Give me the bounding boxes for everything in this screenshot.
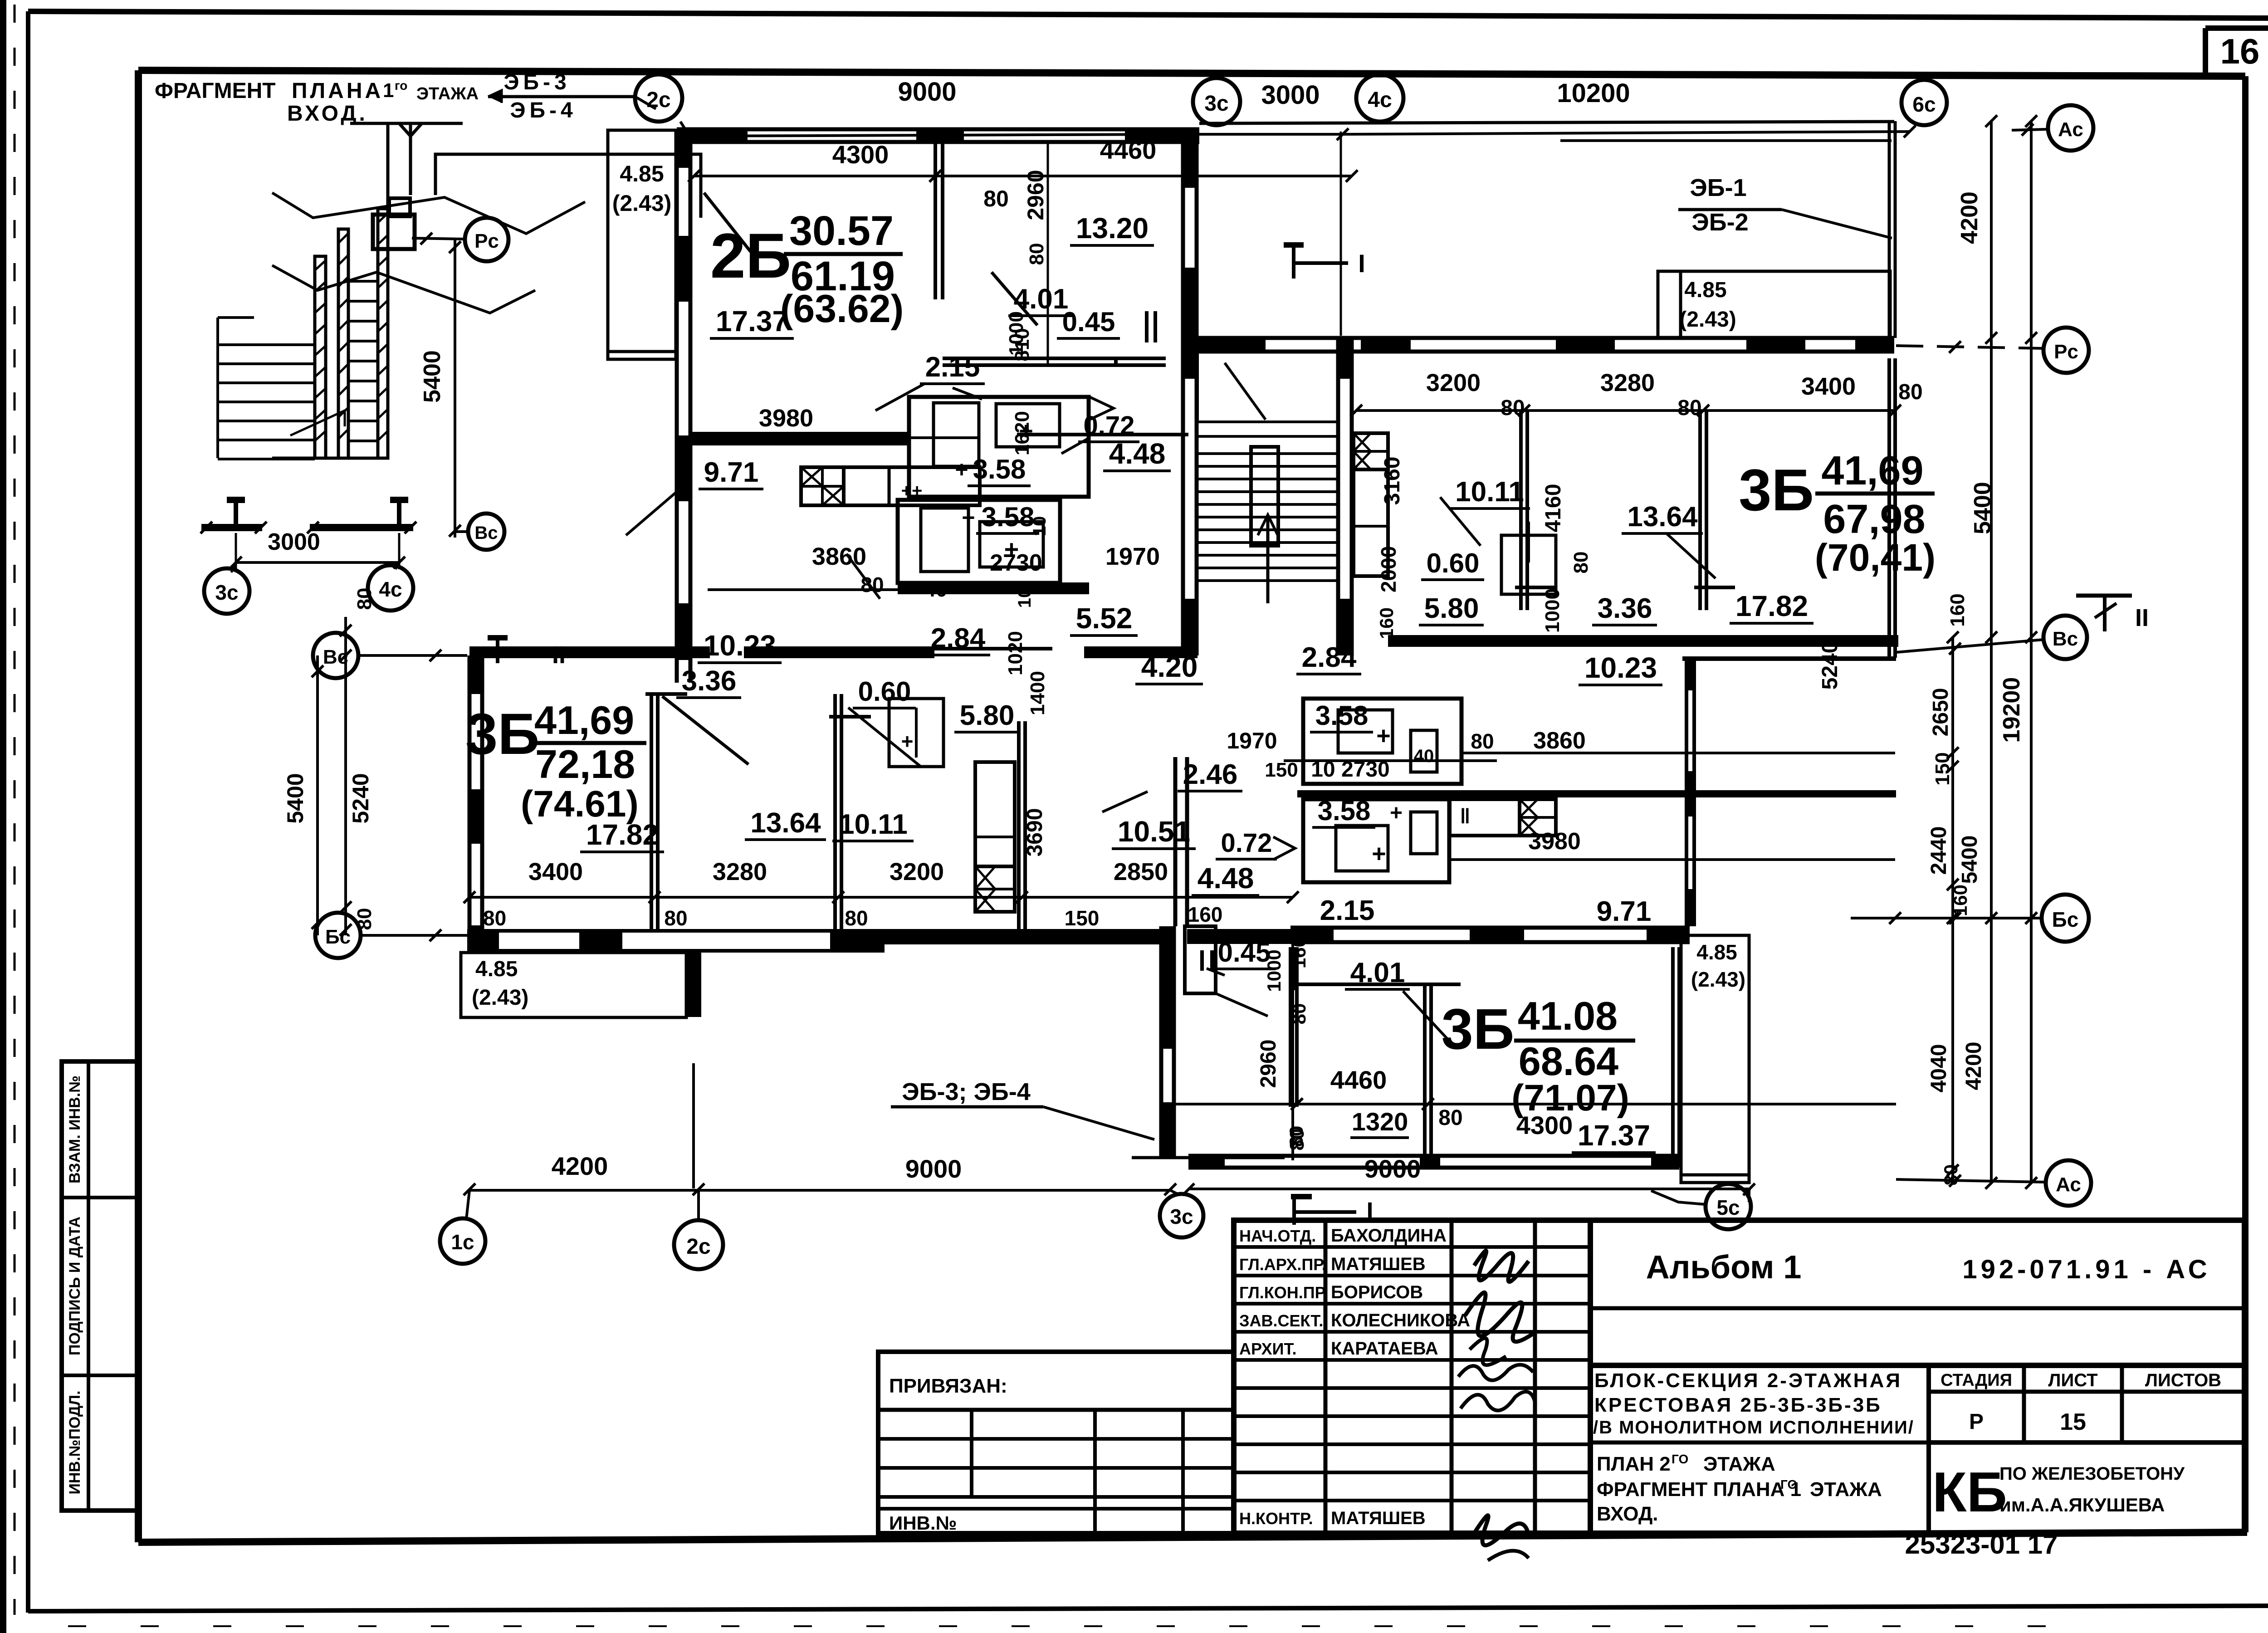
- svg-text:0.45: 0.45: [1062, 307, 1115, 337]
- svg-text:ЭБ-3; ЭБ-4: ЭБ-3; ЭБ-4: [902, 1078, 1030, 1105]
- svg-text:ЭТАЖА: ЭТАЖА: [1703, 1453, 1775, 1475]
- svg-text:ВЗАМ. ИНВ.№: ВЗАМ. ИНВ.№: [66, 1076, 83, 1183]
- svg-text:5400: 5400: [1958, 836, 1982, 884]
- svg-text:72,18: 72,18: [535, 742, 635, 787]
- svg-text:ГО: ГО: [1672, 1452, 1688, 1466]
- svg-text:го: го: [395, 78, 407, 93]
- upper-storey outline east of 3c: [1199, 122, 1894, 123]
- svg-text:МАТЯШЕВ: МАТЯШЕВ: [1331, 1508, 1426, 1528]
- wall under room 13.20: [943, 357, 1166, 360]
- balcony SW: [461, 953, 686, 1017]
- svg-text:10.23: 10.23: [704, 629, 776, 662]
- svg-text:3280: 3280: [1600, 369, 1655, 396]
- svg-text:(2.43): (2.43): [1691, 968, 1745, 991]
- svg-text:3.36: 3.36: [682, 665, 737, 697]
- svg-text:3Б: 3Б: [1442, 997, 1515, 1061]
- fragment dim 5400 vertical: [454, 240, 456, 538]
- svg-text:2960: 2960: [1256, 1040, 1281, 1088]
- svg-text:40: 40: [1414, 746, 1434, 766]
- svg-text:ЭБ-3: ЭБ-3: [503, 70, 570, 94]
- east wing room divider 2: [1698, 411, 1702, 610]
- fragment break zigzag top: [272, 193, 585, 234]
- axis circle 6c top: [1901, 80, 1947, 125]
- svg-text:2.46: 2.46: [1183, 759, 1238, 790]
- svg-text:3160: 3160: [1380, 457, 1404, 505]
- door swing east room1: [1440, 497, 1481, 546]
- svg-text:3400: 3400: [528, 858, 583, 885]
- svg-text:3.58: 3.58: [973, 454, 1026, 484]
- fragment wall top-left: [386, 123, 390, 218]
- east wall of east wing: [1887, 358, 1891, 658]
- svg-text:1620: 1620: [1011, 411, 1033, 455]
- SE east wall: [1671, 947, 1675, 1168]
- svg-text:им.А.А.ЯКУШЕВА: им.А.А.ЯКУШЕВА: [1999, 1494, 2165, 1516]
- section mark II left: [496, 638, 499, 663]
- svg-text:2с: 2с: [646, 88, 670, 112]
- door swing 17.37: [846, 554, 880, 599]
- svg-text:+: +: [901, 729, 914, 753]
- svg-text:4.01: 4.01: [1014, 284, 1069, 315]
- svg-text:1320: 1320: [1352, 1107, 1408, 1136]
- svg-text:2.15: 2.15: [925, 352, 980, 383]
- svg-text:КАРАТАЕВА: КАРАТАЕВА: [1331, 1339, 1438, 1359]
- balcony SE: [1681, 935, 1749, 1183]
- svg-text:ИНВ.№: ИНВ.№: [889, 1512, 957, 1534]
- svg-text:4460: 4460: [1330, 1066, 1387, 1094]
- svg-text:1970: 1970: [1227, 728, 1277, 753]
- svg-text:ГЛ.АРХ.ПР.: ГЛ.АРХ.ПР.: [1239, 1255, 1326, 1274]
- axis circle 5c bottom: [1706, 1184, 1751, 1229]
- svg-text:ВХОД.: ВХОД.: [1597, 1503, 1658, 1525]
- axis circle Ac top-right: [2048, 105, 2093, 151]
- svg-text:ЛИСТ: ЛИСТ: [2048, 1370, 2097, 1390]
- svg-text:2000: 2000: [1377, 546, 1400, 592]
- svg-text:2Б: 2Б: [710, 220, 792, 291]
- SE kitchen counter: [1450, 799, 1556, 836]
- svg-text:ФРАГМЕНТ ПЛАНА 1: ФРАГМЕНТ ПЛАНА 1: [1597, 1478, 1801, 1501]
- svg-text:4200: 4200: [1962, 1042, 1986, 1090]
- fragment left hatched wall: [315, 256, 326, 458]
- svg-text:41,69: 41,69: [534, 698, 634, 743]
- apartment 2B room divider: [934, 143, 937, 299]
- svg-text:Альбом 1: Альбом 1: [1646, 1249, 1802, 1286]
- svg-text:9.71: 9.71: [1597, 896, 1652, 927]
- party wall below SE upper bath: [1297, 790, 1896, 797]
- svg-text:(2.43): (2.43): [472, 986, 528, 1010]
- svg-text:80: 80: [983, 186, 1009, 211]
- SE south exterior wall: [1188, 1154, 1679, 1158]
- SE room divider: [1423, 984, 1427, 1161]
- svg-text:+: +: [1390, 801, 1403, 825]
- personnel table frame: [1234, 1220, 1590, 1533]
- svg-text:160: 160: [1946, 593, 1969, 626]
- svg-text:5.52: 5.52: [1076, 602, 1133, 635]
- axis circle 2c bottom: [674, 1220, 723, 1269]
- svg-text:3Б: 3Б: [465, 702, 539, 767]
- axis line 4c: [1340, 132, 1342, 336]
- svg-text:3.58: 3.58: [1315, 700, 1369, 731]
- svg-text:1020: 1020: [1004, 631, 1026, 675]
- svg-text:3200: 3200: [1426, 369, 1481, 396]
- svg-text:ГО: ГО: [1780, 1477, 1797, 1491]
- svg-text:160: 160: [1188, 903, 1223, 926]
- kitchen counter 9.71: [801, 467, 980, 505]
- svg-text:ГЛ.КОН.ПР.: ГЛ.КОН.ПР.: [1239, 1283, 1328, 1302]
- door swing SW room1: [662, 696, 748, 764]
- svg-text:0.45: 0.45: [1218, 937, 1271, 968]
- axis circle Bc left: [313, 633, 358, 678]
- svg-text:4200: 4200: [1956, 191, 1983, 244]
- SW room divider 2: [833, 694, 837, 931]
- svg-text:БАХОЛДИНА: БАХОЛДИНА: [1331, 1226, 1447, 1246]
- outer sheet border: [28, 11, 2268, 18]
- svg-text:9.71: 9.71: [704, 457, 759, 488]
- Pc wall band: [1198, 336, 1894, 340]
- axis circle Ac bottom-right: [2046, 1160, 2091, 1206]
- section mark I upper (east): [1292, 245, 1295, 279]
- svg-text:(2.43): (2.43): [612, 191, 672, 216]
- window symbol near 0.45 bottom: [1200, 950, 1204, 971]
- east wall below Bc: [1685, 659, 1688, 926]
- door swing east room2: [1667, 534, 1716, 578]
- svg-text:4460: 4460: [1100, 136, 1157, 164]
- svg-text:5400: 5400: [419, 350, 445, 403]
- svg-text:80: 80: [483, 906, 506, 930]
- svg-text:13.64: 13.64: [750, 807, 821, 839]
- svg-text:Ас: Ас: [2058, 118, 2083, 141]
- svg-text:10200: 10200: [1557, 78, 1630, 108]
- svg-text:810: 810: [1011, 328, 1033, 361]
- Bc wall east part: [1388, 635, 1898, 647]
- svg-text:80: 80: [353, 908, 376, 930]
- door swing west apt entry: [626, 481, 689, 535]
- SW corridor wall solid part: [882, 929, 1161, 944]
- stairwell entry lines: [1198, 420, 1338, 423]
- privyazan table frame: [878, 1352, 1234, 1533]
- main interior wall below 2B living room: [690, 432, 909, 445]
- svg-text:3000: 3000: [268, 529, 320, 555]
- svg-text:ФРАГМЕНТ: ФРАГМЕНТ: [155, 79, 276, 103]
- svg-text:НАЧ.ОТД.: НАЧ.ОТД.: [1239, 1227, 1316, 1245]
- svg-text:1с: 1с: [451, 1230, 474, 1254]
- svg-text:80: 80: [1898, 380, 1922, 404]
- svg-text:6с: 6с: [1912, 93, 1936, 116]
- fragment axis circle 3c: [204, 568, 249, 614]
- east wall of north wing: [1888, 121, 1891, 338]
- svg-text:5400: 5400: [283, 773, 308, 823]
- stairwell center shaft: [1251, 447, 1278, 546]
- wall right of west kitchen: [1017, 721, 1021, 930]
- door swing SW room2: [848, 708, 921, 767]
- svg-text:2650: 2650: [1929, 688, 1953, 737]
- svg-text:5с: 5с: [1716, 1196, 1740, 1219]
- svg-text:1000: 1000: [1263, 949, 1285, 992]
- svg-text:ПЛАН 2: ПЛАН 2: [1597, 1453, 1671, 1475]
- fragment axis circle 4c: [368, 565, 413, 611]
- svg-text:5240: 5240: [348, 773, 373, 823]
- svg-text:4300: 4300: [832, 140, 889, 169]
- svg-text:80: 80: [845, 906, 868, 930]
- axis circle 1c: [440, 1218, 485, 1264]
- right dim chain outer 19200: [2030, 121, 2033, 1183]
- svg-text:ЭБ-2: ЭБ-2: [1691, 209, 1748, 236]
- door swing 13.20 to hall: [992, 272, 1037, 325]
- svg-text:Вс: Вс: [474, 523, 498, 543]
- stairwell right wall: [1336, 338, 1340, 655]
- axis line 2c lower: [692, 1063, 695, 1188]
- svg-text:II: II: [552, 641, 566, 669]
- svg-text:ПО ЖЕЛЕЗОБЕТОНУ: ПО ЖЕЛЕЗОБЕТОНУ: [1999, 1464, 2185, 1484]
- svg-text:5400: 5400: [1970, 482, 1996, 534]
- svg-text:80: 80: [1438, 1106, 1462, 1130]
- svg-text:5.80: 5.80: [1424, 593, 1479, 624]
- axis circle Pc right: [2043, 328, 2089, 373]
- bathroom south fixtures: [921, 508, 968, 572]
- svg-text:0.72: 0.72: [1221, 828, 1272, 858]
- fragment wall tee right: [310, 524, 413, 531]
- west exterior wall of north wing: [675, 129, 679, 683]
- svg-text:150: 150: [1265, 759, 1298, 781]
- fragment landing outline: [435, 154, 701, 218]
- SW room divider 1: [650, 694, 653, 931]
- svg-text:(63.62): (63.62): [780, 287, 904, 331]
- svg-text:2.15: 2.15: [1320, 895, 1375, 926]
- svg-text:4040: 4040: [1927, 1044, 1951, 1093]
- svg-text:Р: Р: [1969, 1410, 1984, 1434]
- svg-text:3980: 3980: [1528, 828, 1581, 855]
- svg-text:ПЛАНА: ПЛАНА: [292, 79, 383, 103]
- svg-text:3860: 3860: [812, 543, 866, 570]
- svg-text:I: I: [1358, 249, 1365, 278]
- fragment right hatched wall: [378, 209, 388, 458]
- svg-text:+: +: [1376, 722, 1391, 749]
- party wall below bath: [898, 582, 1089, 594]
- svg-text:ИНВ.№ПОДЛ.: ИНВ.№ПОДЛ.: [66, 1391, 83, 1495]
- svg-text:80: 80: [1286, 1129, 1308, 1151]
- svg-text:1400: 1400: [1026, 671, 1049, 715]
- small window symbol near 0.45: [1145, 311, 1149, 342]
- Bc corridor wall west part: [469, 646, 710, 658]
- sheet number box 16: [2203, 28, 2208, 76]
- svg-text:9000: 9000: [898, 77, 956, 107]
- svg-text:II: II: [2135, 604, 2149, 631]
- svg-text:4с: 4с: [379, 577, 402, 601]
- svg-text:80: 80: [1940, 1164, 1961, 1186]
- right dim chain fine: [1951, 637, 1954, 1183]
- balcony NE: [1658, 271, 1890, 338]
- svg-text:80: 80: [1471, 729, 1494, 753]
- svg-text:17.37: 17.37: [716, 305, 788, 337]
- fragment stair treads right flight: [348, 280, 378, 283]
- svg-text:17.82: 17.82: [586, 818, 659, 851]
- svg-text:/В МОНОЛИТНОМ ИСПОЛНЕНИИ/: /В МОНОЛИТНОМ ИСПОЛНЕНИИ/: [1593, 1418, 1914, 1437]
- bottom dim line: [469, 1189, 1170, 1192]
- svg-text:ЗАВ.СЕКТ.: ЗАВ.СЕКТ.: [1239, 1311, 1323, 1330]
- fragment axis arrow V: [350, 122, 463, 125]
- svg-text:4.48: 4.48: [1198, 862, 1254, 895]
- svg-text:3200: 3200: [890, 858, 944, 885]
- svg-text:4.85: 4.85: [1684, 278, 1726, 302]
- Bc corridor wall center: [1084, 646, 1198, 658]
- axis circle 3c bottom: [1160, 1194, 1203, 1237]
- svg-text:2с: 2с: [686, 1235, 710, 1259]
- section mark II right: [2076, 594, 2132, 598]
- svg-text:1000: 1000: [1541, 588, 1564, 633]
- fragment mid wall: [338, 229, 348, 458]
- svg-text:10 2730: 10 2730: [1311, 758, 1390, 782]
- svg-text:4.85: 4.85: [475, 957, 518, 981]
- fragment lower landing: [272, 457, 388, 460]
- left side rotated table: [62, 1061, 139, 1511]
- bathroom unit south outer: [898, 500, 1060, 583]
- svg-text:4160: 4160: [1541, 484, 1565, 533]
- bathroom north fixtures: [934, 403, 979, 466]
- axis circle 3c top: [1193, 78, 1240, 125]
- svg-text:Ас: Ас: [2056, 1173, 2081, 1196]
- stadia list listov header: [1926, 1365, 1931, 1533]
- entry box at 3c: [1185, 926, 1216, 993]
- svg-text:МАТЯШЕВ: МАТЯШЕВ: [1331, 1254, 1426, 1274]
- fragment axis circle Pc: [465, 218, 508, 261]
- corridor wall above SE apartment: [1187, 929, 1290, 944]
- axis circle Bc(lower) right: [2042, 895, 2089, 942]
- svg-text:+: +: [955, 457, 968, 482]
- door swing 2B entry: [704, 193, 751, 252]
- SE upper room walls: [1297, 983, 1425, 986]
- svg-text:ЭТАЖА: ЭТАЖА: [1810, 1478, 1882, 1501]
- svg-text:10.23: 10.23: [1584, 651, 1657, 684]
- stair entry door swing: [1225, 363, 1266, 420]
- svg-text:160: 160: [1950, 885, 1971, 916]
- svg-text:3.36: 3.36: [1598, 593, 1652, 624]
- svg-text:3860: 3860: [1533, 728, 1586, 754]
- svg-text:БЛОК-СЕКЦИЯ 2-ЭТАЖНАЯ: БЛОК-СЕКЦИЯ 2-ЭТАЖНАЯ: [1594, 1369, 1902, 1392]
- svg-text:4с: 4с: [1368, 88, 1392, 112]
- svg-text:Н.КОНТР.: Н.КОНТР.: [1239, 1509, 1313, 1528]
- svg-text:41.08: 41.08: [1518, 993, 1618, 1038]
- svg-text:2730: 2730: [990, 550, 1042, 576]
- svg-text:3с: 3с: [215, 581, 238, 604]
- svg-text:4.48: 4.48: [1109, 437, 1166, 470]
- fragment canopy box: [373, 215, 415, 249]
- svg-text:Рс: Рс: [2054, 341, 2078, 363]
- svg-text:150: 150: [1065, 906, 1100, 930]
- svg-text:3000: 3000: [1261, 80, 1320, 110]
- svg-text:‖: ‖: [1460, 804, 1471, 828]
- SW south exterior wall: [467, 929, 885, 933]
- svg-text:160: 160: [1376, 607, 1397, 639]
- small wc east: [1501, 535, 1556, 594]
- stairwell left wall: [1181, 129, 1185, 655]
- svg-text:5240: 5240: [1818, 641, 1842, 690]
- axis circle 4c top: [1356, 74, 1403, 122]
- bottom scan dashes: [68, 1625, 2087, 1627]
- axis circle 2c top: [635, 74, 682, 122]
- room 13.20 divider walls: [1114, 358, 1118, 365]
- left dim chain 5400/5240: [316, 655, 319, 935]
- svg-text:1970: 1970: [1105, 543, 1160, 570]
- axis circle Bc right: [2043, 616, 2087, 659]
- stairwell arrow: [1266, 515, 1270, 603]
- SE apartment left wall: [1289, 947, 1292, 1107]
- scan left edge bar: [0, 0, 6, 1633]
- svg-text:3.58: 3.58: [1318, 796, 1371, 826]
- svg-text:10.11: 10.11: [839, 809, 908, 840]
- svg-text:+: +: [1372, 840, 1386, 867]
- svg-text:4300: 4300: [1516, 1111, 1573, 1139]
- svg-text:3Б: 3Б: [1739, 457, 1814, 523]
- svg-text:СТАДИЯ: СТАДИЯ: [1941, 1371, 2012, 1390]
- svg-text:ЭТАЖА: ЭТАЖА: [416, 84, 479, 103]
- svg-text:13.20: 13.20: [1076, 212, 1149, 244]
- Bc-level wall over SE apartment: [1290, 926, 1690, 930]
- svg-text:19200: 19200: [1999, 677, 2025, 743]
- 3c window wall: [1159, 926, 1163, 1159]
- svg-text:ЭБ-1: ЭБ-1: [1690, 174, 1746, 201]
- svg-text:192-071.91 - АС: 192-071.91 - АС: [1962, 1255, 2210, 1284]
- dim line 4460/4300: [1166, 1103, 1896, 1105]
- svg-text:ЛИСТОВ: ЛИСТОВ: [2145, 1370, 2221, 1390]
- svg-text:(70,41): (70,41): [1815, 536, 1936, 579]
- svg-text:5.80: 5.80: [960, 700, 1015, 731]
- svg-text:Рс: Рс: [474, 230, 499, 252]
- svg-text:3.58: 3.58: [982, 502, 1035, 532]
- west kitchen counter: [975, 762, 1015, 912]
- svg-text:АРХИТ.: АРХИТ.: [1239, 1340, 1296, 1358]
- svg-text:10: 10: [1030, 516, 1050, 537]
- axis circle Bc(lower) left: [315, 913, 361, 958]
- stairwell treads: [1198, 452, 1338, 455]
- west wc/bath small rooms: [889, 699, 943, 767]
- fragment stair arrow: [290, 411, 345, 435]
- wall right of 10.51: [1173, 757, 1178, 926]
- privyazan grid: [878, 1437, 1234, 1441]
- svg-text:3с: 3с: [1204, 92, 1228, 116]
- svg-text:(2.43): (2.43): [1679, 308, 1736, 332]
- leader to entry: [1216, 993, 1268, 1016]
- svg-text:30.57: 30.57: [789, 208, 894, 254]
- fragment wall tee left: [201, 524, 262, 531]
- balcony SW divider stub: [686, 953, 701, 1017]
- svg-text:10.11: 10.11: [1455, 476, 1524, 508]
- east wing kitchen counter: [1354, 433, 1388, 576]
- fragment axis circle Bc: [468, 513, 504, 550]
- svg-text:ЭБ-4: ЭБ-4: [510, 98, 577, 122]
- svg-text:9000: 9000: [905, 1154, 962, 1183]
- east wing room divider 1: [1519, 411, 1523, 610]
- svg-text:17.37: 17.37: [1578, 1119, 1650, 1152]
- balcony NW: [608, 130, 676, 359]
- svg-text:КРЕСТОВАЯ 2Б-3Б-3Б-3Б: КРЕСТОВАЯ 2Б-3Б-3Б-3Б: [1594, 1394, 1882, 1416]
- svg-text:3с: 3с: [1170, 1205, 1193, 1228]
- svg-text:0.72: 0.72: [1084, 411, 1135, 440]
- svg-text:2440: 2440: [1927, 826, 1951, 875]
- svg-text:80: 80: [1570, 552, 1592, 574]
- svg-text:3400: 3400: [1801, 373, 1856, 400]
- svg-text:3280: 3280: [713, 858, 767, 885]
- fragment stair treads left flight: [218, 343, 315, 346]
- svg-text:16: 16: [2220, 31, 2260, 71]
- title block right frame: [1590, 1220, 2244, 1533]
- svg-text:0.60: 0.60: [1427, 548, 1480, 578]
- bathroom unit north outer: [909, 397, 1089, 497]
- svg-text:Вс: Вс: [2053, 628, 2078, 650]
- svg-text:17.82: 17.82: [1735, 590, 1808, 622]
- svg-text:150: 150: [1931, 752, 1954, 785]
- inner drawing frame: [138, 70, 2245, 76]
- svg-text:9000: 9000: [1364, 1154, 1421, 1183]
- svg-text:ПРИВЯЗАН:: ПРИВЯЗАН:: [889, 1375, 1007, 1397]
